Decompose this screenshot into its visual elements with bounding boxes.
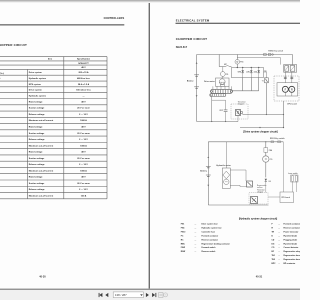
- svg-text:2 — 10 V: 2 — 10 V: [79, 164, 88, 166]
- svg-text:Regenerative relay: Regenerative relay: [284, 250, 301, 253]
- svg-text:Regenerative braking contactor: Regenerative braking contactor: [202, 242, 231, 245]
- legend left column: [181, 223, 230, 254]
- motor terminal tab: [220, 84, 224, 86]
- svg-text:BP contactor: BP contactor: [284, 262, 296, 265]
- svg-text:R: R: [291, 89, 293, 91]
- svg-text:48 V: 48 V: [81, 66, 86, 69]
- svg-text:150 mA or less: 150 mA or less: [76, 89, 91, 92]
- svg-text:RBC: RBC: [181, 243, 186, 245]
- svg-text:TH1: TH1: [272, 255, 276, 257]
- svg-text:480 A or less: 480 A or less: [77, 77, 91, 80]
- svg-text:Reverse contactor: Reverse contactor: [202, 238, 219, 241]
- svg-text:2 — 10 V: 2 — 10 V: [79, 189, 88, 191]
- svg-text:—: —: [278, 235, 280, 237]
- svg-text:CHOPPER CIRCUIT: CHOPPER CIRCUIT: [176, 37, 207, 41]
- svg-text:Drive motor: Drive motor: [204, 80, 215, 83]
- svg-text:Hydraulic system fuse: Hydraulic system fuse: [202, 227, 222, 230]
- svg-text:ELECTRICAL SYSTEM: ELECTRICAL SYSTEM: [176, 18, 210, 22]
- svg-text:[Drive system chopper circuit]: [Drive system chopper circuit]: [243, 131, 278, 134]
- wire: hyd top rail with key switch: [208, 141, 283, 143]
- CPU board dashed box (drive): [274, 76, 299, 101]
- junction dots on panel top: [237, 67, 260, 68]
- legend right column: [272, 223, 304, 265]
- contactor coils FC RC: [277, 83, 298, 96]
- svg-text:1000 A: 1000 A: [80, 144, 87, 147]
- svg-text:38.4 ± 1.5 A: 38.4 ± 1.5 A: [78, 83, 90, 86]
- svg-text:—: —: [278, 224, 280, 226]
- svg-text:t (Net): t (Net): [0, 72, 4, 75]
- wire: drive top rail: [197, 54, 265, 56]
- current sensor CO2: [263, 156, 273, 178]
- svg-text:TH2: TH2: [272, 259, 276, 261]
- svg-text:Transistor: Transistor: [238, 101, 246, 104]
- wire: motor box stubs: [230, 170, 246, 187]
- table grid: [0, 57, 107, 199]
- svg-text:(CD): (CD): [254, 72, 258, 74]
- wire: hyd left vertical: [207, 142, 209, 205]
- svg-text:Item: Item: [48, 58, 52, 61]
- battery B1: [187, 62, 199, 97]
- svg-text:48 V: 48 V: [81, 126, 86, 129]
- diode D3: [254, 68, 260, 78]
- svg-text:2 — 10 V: 2 — 10 V: [79, 114, 88, 116]
- wire: drive bottom rail: [197, 121, 236, 123]
- svg-text:Hydraulic system: Hydraulic system: [29, 94, 46, 97]
- diode panel box: [231, 68, 263, 78]
- svg-text:Reverse contactor co: Reverse contactor co: [284, 227, 301, 230]
- svg-text:HOPPER CIRCUIT: HOPPER CIRCUIT: [0, 43, 27, 47]
- svg-text:—: —: [195, 243, 197, 245]
- svg-text:Regenerative: Regenerative: [257, 184, 267, 187]
- flyback diodes in CPU: [284, 72, 293, 83]
- sensor box 1CO: [240, 181, 253, 187]
- svg-text:TR: TR: [272, 231, 275, 233]
- svg-text:—: —: [278, 251, 280, 253]
- svg-text:—: —: [82, 95, 85, 97]
- svg-text:Drive system: Drive system: [29, 71, 42, 74]
- wire: drive left vertical (battery): [196, 55, 198, 122]
- svg-text:chopper: chopper: [238, 104, 245, 106]
- svg-text:CD: CD: [272, 239, 275, 241]
- lever switch connector: [288, 172, 298, 192]
- drive motor M1: [204, 78, 229, 86]
- svg-text:—: —: [278, 231, 280, 233]
- svg-text:48 V: 48 V: [81, 100, 86, 103]
- svg-text:Specification: Specification: [77, 58, 91, 61]
- wire: hyd rail to motor: [226, 141, 266, 168]
- svg-text:2 — 10 V: 2 — 10 V: [79, 139, 88, 141]
- svg-text:Release voltage: Release voltage: [29, 188, 46, 191]
- svg-text:Current detector: Current detector: [284, 246, 299, 249]
- wire: motor to bus stubs: [213, 86, 232, 89]
- svg-text:48 V: 48 V: [81, 151, 86, 154]
- toolbar top border: [0, 289, 300, 290]
- svg-text:F: F: [285, 89, 287, 91]
- svg-text:—: —: [195, 228, 197, 230]
- svg-text:—: —: [195, 239, 197, 241]
- svg-text:CPU board: CPU board: [281, 197, 290, 199]
- wire: key switch down to connector: [292, 55, 294, 65]
- svg-text:Hydraulic motor: Hydraulic motor: [216, 164, 231, 167]
- svg-text:mit: mit: [0, 77, 1, 80]
- svg-text:1000 A: 1000 A: [80, 119, 87, 122]
- svg-text:Release voltage: Release voltage: [29, 113, 46, 116]
- transistor chopper dashed box (drive): [231, 101, 248, 119]
- svg-text:26 V or more: 26 V or more: [77, 182, 90, 185]
- svg-text:Release voltage: Release voltage: [29, 138, 46, 141]
- svg-text:—: —: [195, 235, 197, 237]
- diode D1: [238, 68, 244, 78]
- svg-text:40-31: 40-31: [256, 275, 263, 278]
- wire: CPU to lower rail: [240, 101, 284, 128]
- svg-text:[Hydraulic system chopper circ: [Hydraulic system chopper circuit]: [239, 217, 278, 220]
- svg-text:(CH): (CH): [246, 72, 250, 74]
- svg-text:48 V: 48 V: [81, 176, 86, 179]
- button next page: [146, 293, 149, 297]
- wire: chopper to lower rail: [236, 114, 284, 122]
- svg-text:FS1: FS1: [240, 62, 243, 64]
- wire: hyd bottom rail: [208, 204, 268, 206]
- svg-text:CO: CO: [226, 74, 229, 76]
- signal wire to connector: [237, 57, 280, 64]
- table body rows: [29, 63, 92, 198]
- svg-text:Controller fuse: Controller fuse: [202, 230, 215, 233]
- svg-text:—: —: [278, 228, 280, 230]
- diode D4: [265, 179, 271, 193]
- svg-text:20 V or more: 20 V or more: [77, 107, 90, 110]
- svg-text:Rated voltage: Rated voltage: [29, 100, 43, 103]
- svg-text:Flywheel diode: Flywheel diode: [284, 235, 298, 237]
- svg-text:Suction voltage: Suction voltage: [29, 157, 45, 160]
- svg-text:Hydraulic system: Hydraulic system: [29, 77, 46, 80]
- svg-text:SCB-HC77: SCB-HC77: [78, 63, 89, 65]
- fuse FS1: [235, 55, 243, 68]
- svg-text:—: —: [195, 247, 197, 249]
- wires: diode panel to bus rail: [233, 78, 259, 91]
- svg-text:Maximum cut-off current: Maximum cut-off current: [29, 144, 54, 147]
- svg-text:BY: BY: [272, 251, 275, 253]
- svg-text:DG: DG: [272, 243, 275, 245]
- svg-text:Regenerative timer: Regenerative timer: [284, 258, 301, 261]
- svg-text:RC: RC: [181, 239, 184, 241]
- svg-text:202 ± 15 A: 202 ± 15 A: [78, 71, 89, 74]
- svg-text:20 V or more: 20 V or more: [77, 132, 90, 135]
- current sensor CO: [220, 67, 229, 78]
- svg-text:Power transistor: Power transistor: [284, 230, 299, 233]
- svg-text:—: —: [278, 255, 280, 257]
- svg-text:TR: TR: [264, 71, 267, 73]
- svg-text:Drive system fuse: Drive system fuse: [202, 223, 218, 226]
- CPU board box (hyd): [268, 142, 294, 203]
- toolbar background: [0, 289, 300, 300]
- svg-text:130 A: 130 A: [81, 194, 87, 197]
- svg-text:FS1: FS1: [181, 224, 184, 226]
- svg-text:Rated voltage: Rated voltage: [29, 176, 43, 179]
- svg-text:Rated voltage: Rated voltage: [29, 126, 43, 129]
- svg-text:Forward contactor: Forward contactor: [202, 234, 219, 237]
- svg-text:GRD: GRD: [238, 72, 242, 74]
- svg-text:RSV2 Key switch: RSV2 Key switch: [270, 137, 285, 140]
- svg-text:Battery: Battery: [200, 170, 207, 173]
- svg-text:—: —: [278, 263, 280, 265]
- transistor chopper dashed box (hyd): [249, 188, 268, 204]
- svg-text:FC: FC: [181, 235, 184, 237]
- svg-text:—: —: [195, 251, 197, 253]
- svg-text:BPC: BPC: [272, 263, 277, 265]
- svg-text:FS4: FS4: [181, 227, 185, 230]
- svg-text:KPS system: KPS system: [29, 83, 41, 86]
- svg-text:—: —: [278, 243, 280, 245]
- button prev page: [105, 293, 108, 297]
- diode D2: [246, 68, 252, 78]
- page number field: [113, 292, 143, 298]
- svg-text:FS10: FS10: [181, 231, 186, 233]
- wire: TR down to lower rail: [265, 83, 267, 115]
- svg-text:Battery: Battery: [187, 80, 194, 83]
- button first page: [99, 293, 103, 297]
- svg-text:ain: ain: [0, 90, 1, 92]
- transistor TR: [262, 71, 269, 83]
- page separator line: [149, 2, 150, 289]
- svg-text:40-30: 40-30: [39, 275, 46, 278]
- svg-text:MC: MC: [224, 64, 227, 66]
- svg-text:Forward switch: Forward switch: [202, 246, 217, 249]
- svg-text:—: —: [195, 231, 197, 233]
- svg-text:Suction voltage: Suction voltage: [29, 132, 45, 135]
- svg-text:RSW: RSW: [181, 251, 186, 253]
- svg-text:RSV2 Key switch: RSV2 Key switch: [268, 49, 283, 52]
- svg-text:Lever switch: Lever switch: [288, 172, 298, 175]
- svg-text:CPU board: CPU board: [287, 103, 298, 105]
- svg-text:Maximum cut-off current: Maximum cut-off current: [29, 119, 54, 122]
- capacitor BYC: [212, 100, 228, 122]
- svg-text:F: F: [272, 224, 274, 226]
- svg-text:Maximum cut-off current: Maximum cut-off current: [29, 169, 54, 172]
- svg-text:Suction voltage: Suction voltage: [29, 182, 45, 185]
- key switch SW on top rail: [264, 49, 293, 55]
- svg-text:BYC: BYC: [220, 110, 224, 112]
- svg-text:D4: D4: [269, 180, 271, 183]
- svg-text:FS4: FS4: [269, 149, 272, 152]
- svg-text:138 / 287: 138 / 287: [115, 293, 127, 297]
- connector bus CN1: [210, 89, 233, 96]
- fuse FS4: [264, 142, 272, 156]
- svg-text:20 V or more: 20 V or more: [77, 157, 90, 160]
- svg-text:Suction voltage: Suction voltage: [29, 107, 45, 110]
- button last page: [152, 293, 156, 297]
- svg-text:—: —: [278, 247, 280, 249]
- hydraulic motor M2: [216, 164, 231, 188]
- wire: bus sub-box down to lower rail: [211, 97, 212, 123]
- svg-text:Plugging diode: Plugging diode: [284, 239, 298, 241]
- svg-text:Drive system: Drive system: [29, 89, 42, 92]
- svg-text:CO: CO: [272, 247, 275, 249]
- svg-text:Flywheel diode: Flywheel diode: [284, 243, 298, 245]
- svg-text:Reverse switch: Reverse switch: [202, 250, 217, 253]
- svg-text:SE24-617: SE24-617: [176, 45, 188, 49]
- svg-text:R: R: [272, 228, 274, 230]
- svg-text:CONTROLLERS: CONTROLLERS: [104, 16, 125, 20]
- right page header rule: [176, 22, 301, 24]
- svg-text:1000 A: 1000 A: [80, 169, 87, 172]
- contactor MC contact: [219, 55, 231, 67]
- svg-text:CO: CO: [270, 159, 273, 161]
- svg-text:—: —: [195, 224, 197, 226]
- svg-text:—: —: [278, 259, 280, 261]
- svg-text:Rated voltage: Rated voltage: [29, 151, 43, 154]
- svg-text:Regenerative timer: Regenerative timer: [284, 254, 301, 257]
- svg-text:chopper: chopper: [257, 191, 264, 193]
- svg-text:FSW: FSW: [181, 247, 185, 249]
- toolbar icon 1: [159, 293, 163, 298]
- toolbar icon 2: [164, 293, 168, 297]
- left page header rule: [0, 24, 124, 26]
- svg-text:D: D: [272, 235, 274, 237]
- svg-text:Forward contactor co: Forward contactor co: [284, 223, 301, 226]
- svg-text:Release voltage: Release voltage: [29, 163, 46, 166]
- svg-text:T1: T1: [262, 80, 264, 82]
- connector CN2 (hatched): [284, 65, 297, 73]
- svg-text:Maximum cut-off current: Maximum cut-off current: [29, 194, 54, 197]
- battery B2: [200, 156, 210, 186]
- svg-text:—: —: [278, 239, 280, 241]
